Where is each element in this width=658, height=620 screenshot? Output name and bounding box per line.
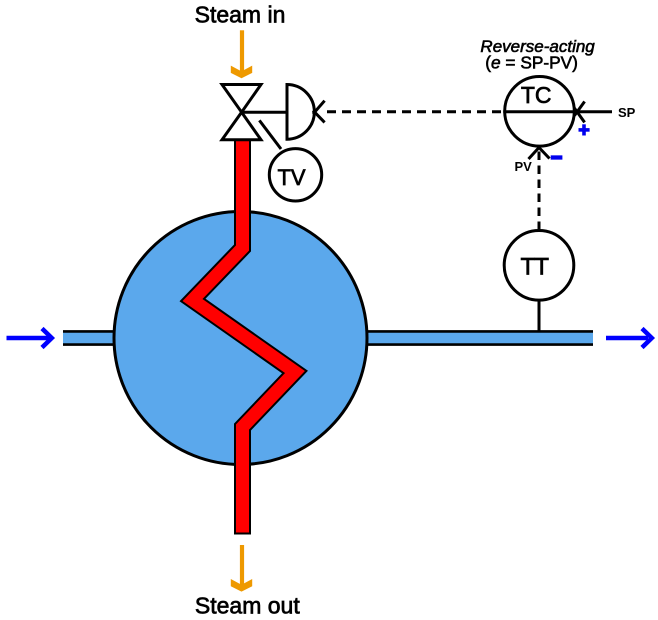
svg-text:TV: TV bbox=[277, 165, 305, 190]
instrument bubble TV bbox=[269, 149, 321, 201]
flow arrow out (blue, right) bbox=[606, 329, 652, 348]
wire: steam coil (red zigzag pipe) bbox=[193, 138, 296, 535]
svg-text:(e = SP-PV): (e = SP-PV) bbox=[485, 53, 578, 73]
steam in arrow (orange) bbox=[231, 30, 252, 78]
valve TV body (bowtie) bbox=[222, 85, 261, 140]
arrowhead PV into TC bottom bbox=[529, 148, 550, 160]
heat exchanger vessel bbox=[114, 212, 367, 465]
plus sign (SP polarity) bbox=[579, 124, 590, 135]
svg-text:TC: TC bbox=[521, 82, 552, 108]
wire: TT to pipe connection bbox=[538, 299, 541, 332]
arrowhead SP into TC bbox=[575, 102, 585, 123]
svg-text:Steam in: Steam in bbox=[195, 2, 286, 28]
wire: dashed measurement signal TT to TC bbox=[538, 152, 541, 230]
valve actuator (diaphragm dome) bbox=[287, 85, 314, 140]
wire: diagonal connector valve to TV bubble bbox=[259, 120, 281, 149]
wire: right process pipe bbox=[330, 331, 593, 344]
wire: SP input line through TC bbox=[503, 110, 612, 113]
steam out arrow (orange) bbox=[231, 545, 252, 592]
wire: valve stem to actuator bbox=[242, 111, 287, 114]
svg-text:TT: TT bbox=[521, 253, 550, 280]
arrowhead into actuator bbox=[313, 101, 325, 123]
instrument bubble TC bbox=[505, 77, 575, 147]
svg-text:PV: PV bbox=[515, 159, 533, 174]
wire: left process pipe bbox=[63, 331, 153, 344]
instrument bubble TT bbox=[504, 230, 574, 300]
svg-text:SP: SP bbox=[618, 105, 636, 120]
minus sign (PV polarity) bbox=[551, 155, 563, 159]
flow arrow in (blue, left) bbox=[7, 329, 52, 348]
wire: dashed control signal TC to valve actuator bbox=[327, 110, 503, 113]
svg-text:Steam out: Steam out bbox=[195, 593, 300, 619]
